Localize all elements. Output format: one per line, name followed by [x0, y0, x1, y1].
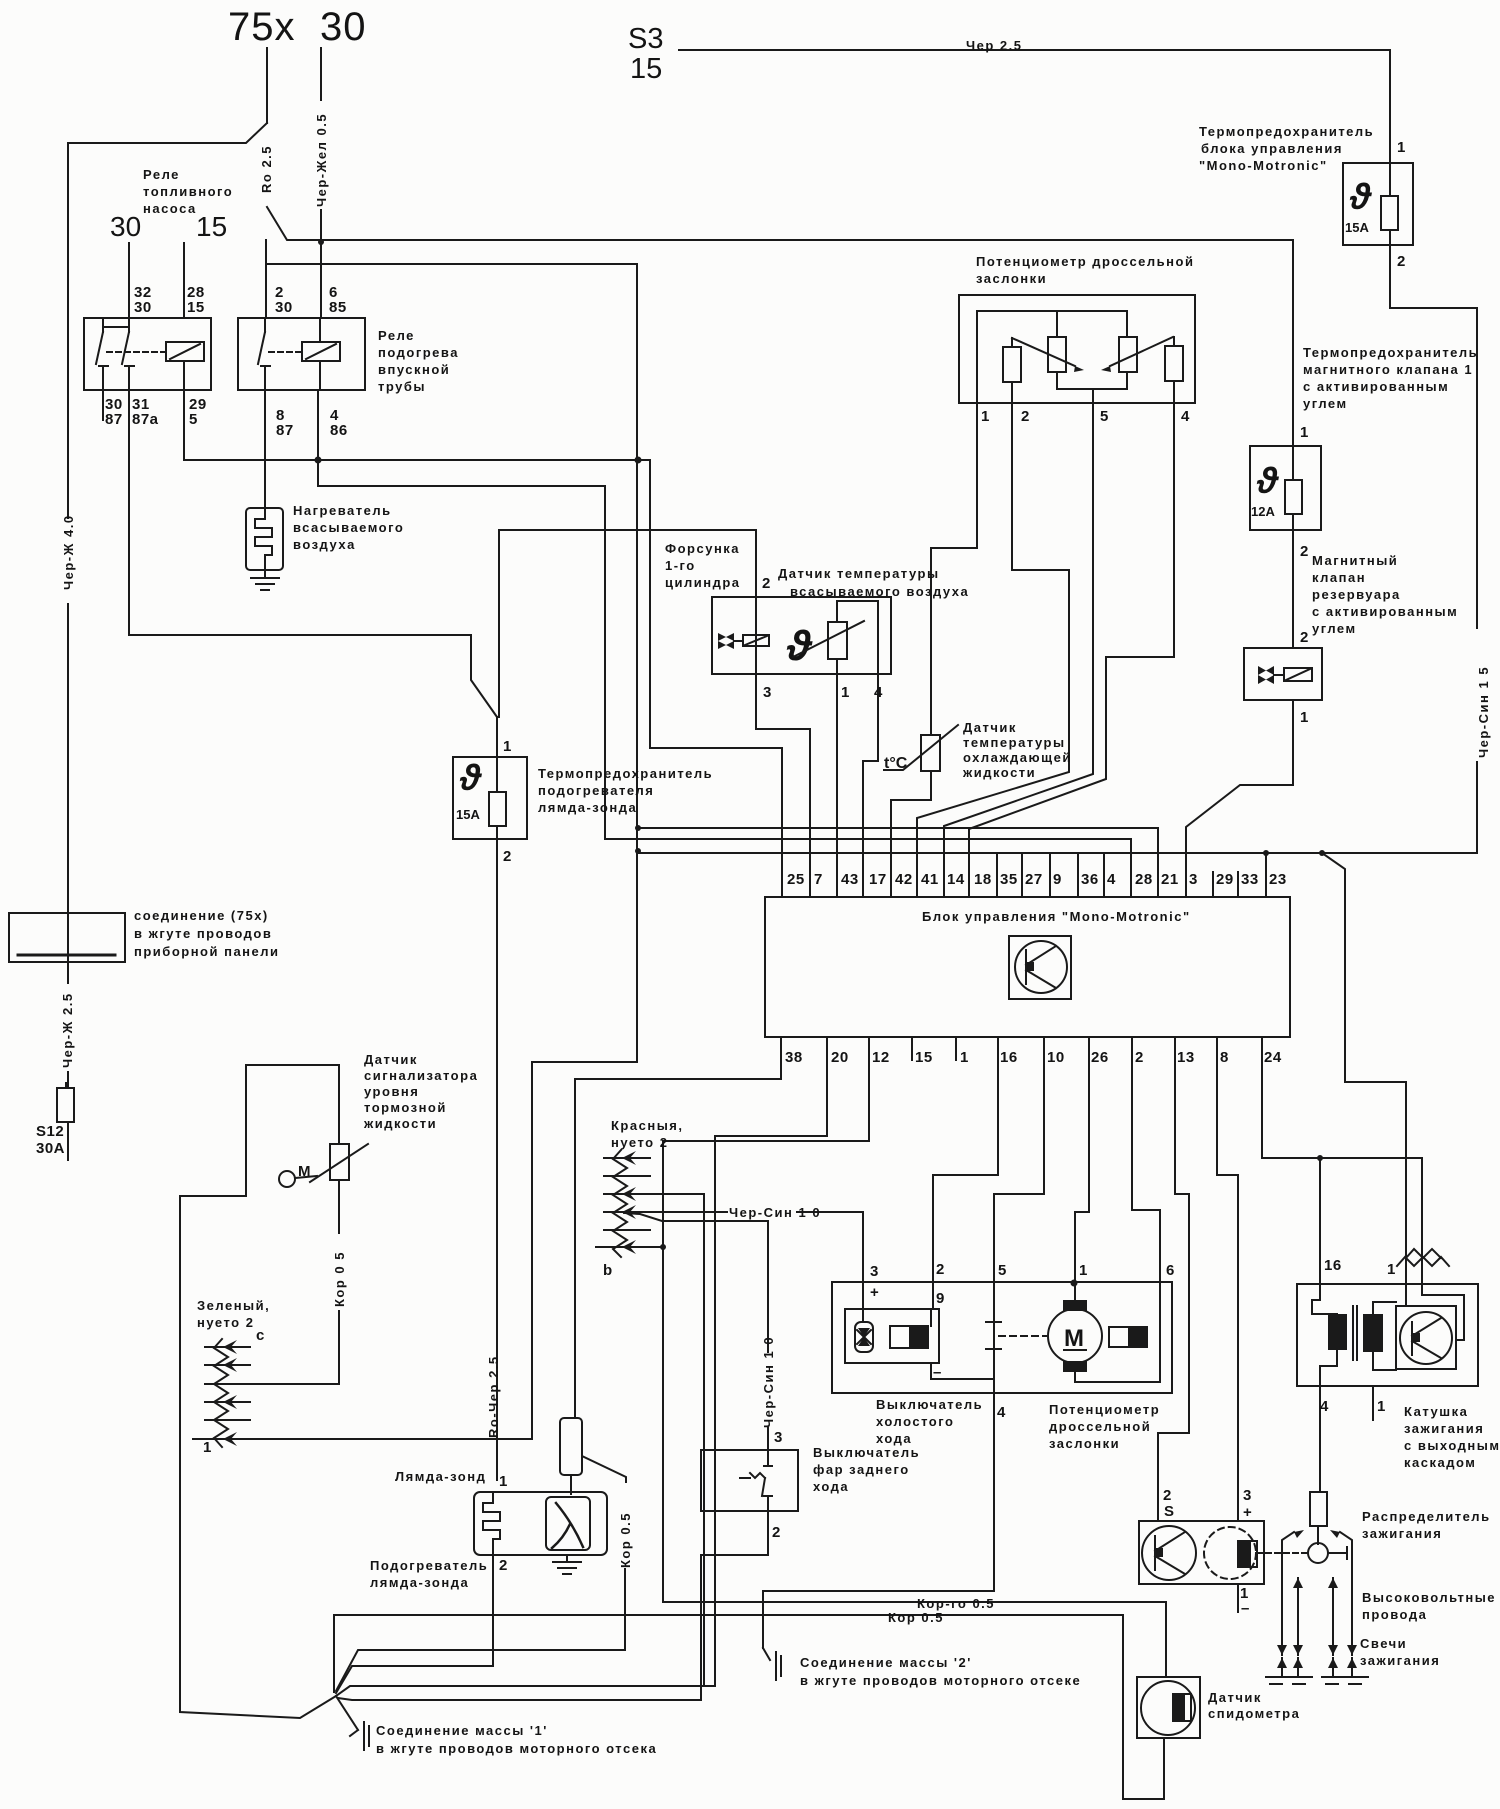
svg-text:2: 2 — [1397, 253, 1406, 270]
svg-text:Блок управления "Mono-Motron: Блок управления "Mono-Motronic" — [922, 909, 1191, 924]
svg-text:цилиндра: цилиндра — [665, 575, 741, 590]
svg-text:2: 2 — [762, 575, 771, 592]
relay K1 fuel pump — [84, 243, 211, 420]
svg-text:12A: 12A — [1251, 504, 1275, 519]
wire ECU pin 1 stub — [955, 1037, 957, 1060]
svg-text:5: 5 — [1100, 408, 1109, 425]
wire lambda fuse pin2 down to lambda probe pin 1 — [496, 839, 498, 1480]
svg-text:углем: углем — [1312, 621, 1357, 636]
svg-text:5: 5 — [998, 1262, 1007, 1279]
svg-text:14: 14 — [947, 871, 965, 888]
idle switch inner box — [845, 1309, 994, 1379]
svg-text:2: 2 — [1135, 1049, 1144, 1066]
wire brake sensor bottom Кор 0 5 — [338, 1180, 340, 1233]
coolant temperature sensor — [884, 725, 958, 771]
svg-text:Термопредохранитель: Термопредохранитель — [1303, 345, 1478, 360]
svg-text:86: 86 — [330, 422, 348, 439]
svg-text:Ro 2.5: Ro 2.5 — [259, 145, 274, 193]
svg-text:4: 4 — [1320, 1398, 1329, 1415]
wire ECU pin 2 to positioner pin 6 — [1132, 1037, 1160, 1382]
svg-text:зажигания: зажигания — [1360, 1653, 1440, 1668]
svg-text:тормозной: тормозной — [364, 1100, 447, 1115]
svg-text:каскадом: каскадом — [1404, 1455, 1476, 1470]
svg-text:3: 3 — [1243, 1487, 1252, 1504]
svg-text:Подогреватель: Подогреватель — [370, 1558, 488, 1573]
svg-text:30: 30 — [275, 299, 293, 316]
wire S3 riser jog to x532 — [230, 1062, 637, 1439]
svg-text:33: 33 — [1241, 871, 1259, 888]
svg-text:Высоковольтные: Высоковольтные — [1362, 1590, 1496, 1605]
wire injector pin2 bus y530 to lambda fuse top — [499, 530, 756, 597]
svg-text:15: 15 — [915, 1049, 933, 1066]
wire branch to ignition coil riser — [1322, 853, 1406, 1258]
svg-text:5: 5 — [189, 411, 198, 428]
wire 75x terminal down — [266, 48, 268, 123]
svg-text:36: 36 — [1081, 871, 1099, 888]
svg-text:ϑ: ϑ — [1256, 460, 1279, 501]
svg-text:Зеленый,: Зеленый, — [197, 1298, 270, 1313]
svg-text:Потенциометр дроссельной: Потенциометр дроссельной — [976, 254, 1194, 269]
svg-text:углем: углем — [1303, 396, 1348, 411]
svg-text:"Mono-Motronic": "Mono-Motronic" — [1199, 158, 1328, 173]
svg-text:с активированным: с активированным — [1303, 379, 1449, 394]
wire red bundle bottom arrow to x663 — [624, 1246, 663, 1248]
svg-text:87: 87 — [105, 411, 123, 428]
fuse S12 30A — [57, 1083, 74, 1122]
svg-text:сигнализатора: сигнализатора — [364, 1068, 478, 1083]
svg-text:ϑ: ϑ — [1349, 176, 1372, 217]
svg-text:t°C: t°C — [884, 755, 908, 772]
svg-text:24: 24 — [1264, 1049, 1282, 1066]
ground symbol 1 — [350, 1722, 369, 1750]
svg-text:приборной панели: приборной панели — [134, 944, 280, 959]
wire bus y839 to ECU pin 28 — [605, 839, 1131, 897]
svg-text:42: 42 — [895, 871, 913, 888]
throttle positioner outer box — [832, 1282, 1172, 1393]
svg-text:13: 13 — [1177, 1049, 1195, 1066]
wire Ro 2.5 diagonal to bus y240 — [267, 207, 1293, 240]
svg-text:1: 1 — [981, 408, 990, 425]
svg-text:Чер-Син 1 5: Чер-Син 1 5 — [1476, 666, 1491, 758]
ignition coil with output stage — [1297, 1249, 1478, 1386]
wire 75x branch to left edge — [68, 123, 267, 143]
svg-text:10: 10 — [1047, 1049, 1065, 1066]
svg-text:17: 17 — [869, 871, 887, 888]
wire ground1 pin20 line — [336, 1686, 715, 1696]
positioner motor M — [986, 1300, 1160, 1382]
svg-text:26: 26 — [1091, 1049, 1109, 1066]
svg-text:15A: 15A — [1345, 220, 1369, 235]
wire S3/15 riser down to ECU level — [636, 264, 638, 1062]
hall sender box — [1139, 1521, 1266, 1584]
wire ECU pin 26 to positioner motor pin 1 — [1075, 1037, 1089, 1300]
svg-text:S3: S3 — [628, 23, 663, 55]
svg-text:насоса: насоса — [143, 201, 197, 216]
thermal fuse F lambda heater 15A — [453, 717, 527, 839]
thermal fuse magnetic valve 12A — [1250, 446, 1321, 530]
svg-text:Чер-Ж 2.5: Чер-Ж 2.5 — [60, 992, 75, 1068]
wire ECU pin 8 to hall sender pin 3 — [1217, 1037, 1238, 1521]
svg-text:Чер-Ж 4.0: Чер-Ж 4.0 — [61, 514, 76, 590]
svg-text:жидкости: жидкости — [363, 1116, 437, 1131]
svg-text:нуето 2: нуето 2 — [197, 1315, 254, 1330]
svg-text:29: 29 — [1216, 871, 1234, 888]
svg-text:2: 2 — [772, 1524, 781, 1541]
svg-text:1: 1 — [499, 1473, 508, 1490]
wire bus y264 from relay area to S3 riser — [266, 263, 637, 265]
wire brake sensor loop left — [180, 1065, 336, 1718]
svg-text:1: 1 — [503, 738, 512, 755]
svg-text:всасываемого воздуха: всасываемого воздуха — [790, 584, 969, 599]
svg-text:хода: хода — [813, 1479, 849, 1494]
thermal fuse control unit 15A top right — [1343, 163, 1413, 245]
reverse light switch — [701, 1450, 798, 1511]
svg-text:23: 23 — [1269, 871, 1287, 888]
wire ECU pin 12 to speedometer Кор-го — [663, 1037, 1166, 1677]
svg-text:с активированным: с активированным — [1312, 604, 1458, 619]
svg-text:подогрева: подогрева — [378, 345, 459, 360]
svg-text:15: 15 — [630, 53, 662, 85]
svg-text:Датчик температуры: Датчик температуры — [778, 566, 940, 581]
wire pot pin5 to ECU pin 14 — [944, 403, 1093, 897]
svg-text:воздуха: воздуха — [293, 537, 356, 552]
svg-text:2: 2 — [1300, 629, 1309, 646]
svg-text:температуры: температуры — [963, 735, 1066, 750]
wire fuse 15A top right down — [1389, 50, 1391, 163]
svg-text:43: 43 — [841, 871, 859, 888]
svg-text:Распределитель: Распределитель — [1362, 1509, 1491, 1524]
wire relay2 pin 8/87 to air heater — [264, 390, 266, 508]
svg-text:S: S — [1164, 1503, 1175, 1520]
svg-text:Соединение массы '1': Соединение массы '1' — [376, 1723, 548, 1738]
svg-text:Нагреватель: Нагреватель — [293, 503, 392, 518]
ECU Mono-Motronic box — [765, 897, 1290, 1037]
svg-text:30: 30 — [134, 299, 152, 316]
wire 30 terminal down — [320, 48, 322, 100]
wire red bundle tick to x704 — [624, 1194, 704, 1686]
wire ECU pin 13 to hall sender pin 2S — [1158, 1037, 1189, 1521]
ground symbol 2 — [763, 1648, 781, 1680]
svg-text:Кор 0 5: Кор 0 5 — [332, 1251, 347, 1307]
relay K2 intake manifold heater — [238, 318, 365, 390]
ignition distributor — [1266, 1492, 1352, 1655]
wire Чер-Син to reverse switch pin 3 — [624, 1213, 768, 1352]
svg-text:клапан: клапан — [1312, 570, 1366, 585]
svg-text:фар заднего: фар заднего — [813, 1462, 910, 1477]
injector cyl1 and air temp sensor box — [712, 597, 891, 674]
svg-text:блока управления: блока управления — [1201, 141, 1343, 156]
wire bus y853 to ECU pin 23 — [638, 852, 1477, 854]
svg-text:2: 2 — [936, 1261, 945, 1278]
svg-text:всасываемого: всасываемого — [293, 520, 404, 535]
ground below lambda probe — [553, 1555, 581, 1574]
svg-text:15: 15 — [187, 299, 205, 316]
wire coil pin 4 to distributor — [1319, 1386, 1321, 1492]
wire pin 23 tick — [1265, 853, 1267, 897]
throttle potentiometer top — [959, 295, 1195, 403]
wire pot pin2 to ECU pin 41 — [917, 403, 1069, 897]
svg-text:2: 2 — [503, 848, 512, 865]
svg-text:провода: провода — [1362, 1607, 1427, 1622]
svg-text:топливного: топливного — [143, 184, 233, 199]
svg-text:Чер-Син 1 0: Чер-Син 1 0 — [729, 1205, 821, 1220]
svg-text:уровня: уровня — [364, 1084, 419, 1099]
svg-text:1: 1 — [960, 1049, 969, 1066]
svg-text:подогревателя: подогревателя — [538, 783, 654, 798]
svg-text:1: 1 — [1300, 424, 1309, 441]
svg-text:+: + — [870, 1284, 879, 1301]
wire x650 down to y748 to ECU pin 25 — [650, 460, 782, 897]
svg-text:соединение (75x): соединение (75x) — [134, 908, 269, 923]
svg-text:Термопредохранитель: Термопредохранитель — [538, 766, 713, 781]
svg-text:лямда-зонда: лямда-зонда — [538, 800, 637, 815]
svg-text:Чер 2.5: Чер 2.5 — [966, 38, 1023, 53]
svg-text:заслонки: заслонки — [976, 271, 1047, 286]
svg-text:15A: 15A — [456, 807, 480, 822]
wire brake sensor loop top — [246, 1065, 339, 1144]
wire coil pin 1 stub — [1372, 1386, 1374, 1420]
svg-text:Форсунка: Форсунка — [665, 541, 740, 556]
svg-text:6: 6 — [1166, 1262, 1175, 1279]
green bundle zigzag — [193, 1339, 250, 1447]
svg-text:3: 3 — [763, 684, 772, 701]
svg-text:Термопредохранитель: Термопредохранитель — [1199, 124, 1374, 139]
svg-text:3: 3 — [1189, 871, 1198, 888]
wire coil pin16 from y1158 — [1319, 1158, 1321, 1284]
wire ECU pin 20 to ground 1 — [715, 1037, 827, 1686]
wire bus y828 to ECU pin 21 — [638, 828, 1158, 897]
svg-text:21: 21 — [1161, 871, 1179, 888]
svg-text:87a: 87a — [132, 411, 159, 428]
svg-text:Лямда-зонд: Лямда-зонд — [395, 1469, 486, 1484]
svg-text:M: M — [298, 1163, 311, 1180]
wire reverse switch pin 2 down — [338, 1511, 768, 1700]
red bundle zigzag — [596, 1150, 650, 1257]
svg-text:1: 1 — [1397, 139, 1406, 156]
svg-text:магнитного клапана 1: магнитного клапана 1 — [1303, 362, 1473, 377]
wire ground1 horizontal Кор 0.5 to speedo loop — [334, 1615, 1164, 1799]
wire solenoid pin 1 to ECU pin 3 — [1186, 700, 1293, 897]
svg-text:9: 9 — [936, 1290, 945, 1307]
wire pot pin1 to coolant sensor — [931, 403, 977, 735]
svg-text:Свечи: Свечи — [1360, 1636, 1407, 1651]
svg-text:4: 4 — [997, 1404, 1006, 1421]
svg-text:лямда-зонда: лямда-зонда — [370, 1575, 469, 1590]
svg-text:16: 16 — [1324, 1257, 1342, 1274]
wire left edge Чер-Ж down to connection box and fuse S12 — [67, 143, 69, 518]
wire lambda pin 2 to ground 1 — [336, 1555, 493, 1693]
svg-text:2: 2 — [1300, 543, 1309, 560]
svg-text:4: 4 — [1107, 871, 1116, 888]
wire Кор 0.5 lambda to ground 1 — [336, 1578, 625, 1691]
svg-text:28: 28 — [1135, 871, 1153, 888]
svg-text:S12: S12 — [36, 1123, 64, 1140]
svg-text:хода: хода — [876, 1431, 912, 1446]
wire ECU pin 10 to throttle positioner pin5 — [994, 1037, 1044, 1591]
wire bus y240 down to 12A fuse — [1292, 240, 1294, 446]
svg-text:с выходным: с выходным — [1404, 1438, 1500, 1453]
svg-text:Кор-го 0.5: Кор-го 0.5 — [917, 1596, 995, 1611]
svg-text:Соединение массы '2': Соединение массы '2' — [800, 1655, 972, 1670]
svg-text:Реле: Реле — [378, 328, 415, 343]
wire S3 15 horizontal Чер 2.5 to thermal fuse — [679, 49, 1390, 51]
svg-text:+: + — [1243, 1504, 1252, 1521]
svg-text:3: 3 — [774, 1429, 783, 1446]
wire relay2 pin 4/86 bus y486 — [318, 390, 605, 486]
wire ground1 convergence diagonal — [336, 1696, 358, 1730]
svg-text:резервуара: резервуара — [1312, 587, 1401, 602]
svg-text:c: c — [256, 1327, 265, 1344]
node junction dots — [315, 239, 1326, 1287]
svg-text:20: 20 — [831, 1049, 849, 1066]
wire injector pin 3 to ECU pin 7 — [756, 674, 810, 897]
svg-text:1: 1 — [1377, 1398, 1386, 1415]
svg-text:15: 15 — [196, 211, 227, 242]
svg-text:4: 4 — [874, 684, 883, 701]
svg-text:трубы: трубы — [378, 379, 426, 394]
svg-text:25: 25 — [787, 871, 805, 888]
solenoid valve charcoal canister — [1244, 648, 1322, 700]
svg-text:Чер-Жел 0.5: Чер-Жел 0.5 — [314, 113, 329, 207]
wire 12A fuse to solenoid valve — [1292, 530, 1294, 648]
wire ECU pin 24 to ignition coil — [1262, 1037, 1422, 1258]
svg-text:1: 1 — [1387, 1261, 1396, 1278]
wire ECU pin 15 stub — [911, 1037, 913, 1060]
svg-text:3: 3 — [870, 1263, 879, 1280]
lambda probe box — [474, 1492, 607, 1555]
svg-text:Магнитный: Магнитный — [1312, 553, 1398, 568]
svg-text:Датчик: Датчик — [364, 1052, 418, 1067]
svg-text:2: 2 — [1163, 1487, 1172, 1504]
svg-text:нуето 2: нуето 2 — [611, 1135, 668, 1150]
lambda heater connector rect — [560, 1418, 582, 1475]
svg-text:4: 4 — [1181, 408, 1190, 425]
wire lambda heater connector to probe — [570, 1475, 572, 1494]
svg-text:1-го: 1-го — [665, 558, 696, 573]
svg-text:1: 1 — [841, 684, 850, 701]
svg-text:Датчик: Датчик — [1208, 1690, 1262, 1705]
svg-text:–: – — [1241, 1600, 1250, 1617]
svg-text:Красныя,: Красныя, — [611, 1118, 684, 1133]
wire coolant sensor to ECU pin 42 — [891, 771, 931, 897]
svg-text:Катушка: Катушка — [1404, 1404, 1468, 1419]
svg-text:ϑ: ϑ — [786, 622, 813, 669]
svg-text:спидометра: спидометра — [1208, 1706, 1300, 1721]
svg-text:дроссельной: дроссельной — [1049, 1419, 1151, 1434]
svg-text:Датчик: Датчик — [963, 720, 1017, 735]
svg-text:в жгуте проводов моторного: в жгуте проводов моторного отсеке — [800, 1673, 1081, 1688]
svg-text:9: 9 — [1053, 871, 1062, 888]
spark plugs arrows and grounds — [1266, 1645, 1368, 1684]
heater intake air — [246, 508, 283, 570]
wire Ro 2.5 down to relay2 pin 2/30 — [265, 240, 267, 318]
svg-text:27: 27 — [1025, 871, 1043, 888]
wire relay1 pin 29/5 bus y460 — [184, 390, 650, 460]
svg-text:холостого: холостого — [876, 1414, 954, 1429]
svg-text:8: 8 — [1220, 1049, 1229, 1066]
svg-text:зажигания: зажигания — [1362, 1526, 1442, 1541]
svg-text:в жгуте проводов: в жгуте проводов — [134, 926, 272, 941]
wire injector pin 1 to ECU pin 43 — [836, 674, 838, 897]
wire Кор 0.5 diagonal from connector — [582, 1456, 626, 1482]
svg-text:16: 16 — [1000, 1049, 1018, 1066]
svg-text:30A: 30A — [36, 1140, 65, 1157]
svg-text:Потенциометр: Потенциометр — [1049, 1402, 1160, 1417]
svg-text:35: 35 — [1000, 871, 1018, 888]
svg-text:охлаждающей: охлаждающей — [963, 750, 1072, 765]
svg-text:зажигания: зажигания — [1404, 1421, 1484, 1436]
connection 75x instrument panel box — [9, 913, 125, 962]
wire ECU pin 38 to lambda connector — [575, 1037, 781, 1418]
ground below intake air heater — [251, 570, 279, 590]
wire relay1 pin 31/87a to lambda thermal fuse — [129, 390, 497, 736]
svg-text:M: M — [1064, 1325, 1084, 1352]
svg-text:75x: 75x — [228, 5, 296, 49]
svg-text:Выключатель: Выключатель — [813, 1445, 920, 1460]
svg-text:1: 1 — [1079, 1262, 1088, 1279]
svg-text:87: 87 — [276, 422, 294, 439]
svg-text:1: 1 — [203, 1439, 212, 1456]
svg-text:ϑ: ϑ — [459, 757, 482, 798]
wire ECU pin 16 to idle switch — [933, 1037, 998, 1309]
svg-text:Кор 0.5: Кор 0.5 — [888, 1610, 944, 1625]
svg-text:b: b — [603, 1262, 613, 1279]
svg-text:жидкости: жидкости — [962, 765, 1036, 780]
speedometer sensor — [1137, 1677, 1200, 1738]
svg-text:в жгуте проводов моторного: в жгуте проводов моторного отсека — [376, 1741, 657, 1756]
wire injector pin 4 to ECU pin 17 — [863, 674, 878, 897]
brake fluid level sensor — [279, 1144, 368, 1187]
svg-text:Кор 0.5: Кор 0.5 — [618, 1512, 633, 1568]
svg-text:7: 7 — [814, 871, 823, 888]
svg-text:18: 18 — [974, 871, 992, 888]
svg-text:2: 2 — [499, 1557, 508, 1574]
svg-text:1: 1 — [1300, 709, 1309, 726]
wire pot pin4 to ECU pin 18 — [969, 403, 1174, 897]
wire positioner pin4 to ground 2 — [763, 1591, 994, 1648]
svg-text:заслонки: заслонки — [1049, 1436, 1120, 1451]
wire ECU top stub pins — [1021, 853, 1023, 897]
svg-text:–: – — [933, 1364, 942, 1381]
wire x605 down to bus y839 — [604, 486, 606, 839]
svg-text:Реле: Реле — [143, 167, 180, 182]
svg-text:Ro-Чер 2.5: Ro-Чер 2.5 — [486, 1355, 501, 1438]
svg-text:2: 2 — [1021, 408, 1030, 425]
svg-text:впускной: впускной — [378, 362, 450, 377]
wire Чер-Син 1 0 to idle switch pin 3 — [624, 1211, 727, 1213]
svg-text:Чер-Син 1 0: Чер-Син 1 0 — [761, 1336, 776, 1428]
wire Чер-Син 1.5 right edge down — [1476, 308, 1478, 628]
svg-text:Выключатель: Выключатель — [876, 1397, 983, 1412]
svg-text:85: 85 — [329, 299, 347, 316]
svg-text:12: 12 — [872, 1049, 890, 1066]
svg-text:30: 30 — [110, 211, 141, 242]
wire hall pin 1 stub — [1237, 1584, 1239, 1612]
svg-text:38: 38 — [785, 1049, 803, 1066]
svg-text:41: 41 — [921, 871, 939, 888]
svg-text:30: 30 — [320, 5, 367, 49]
